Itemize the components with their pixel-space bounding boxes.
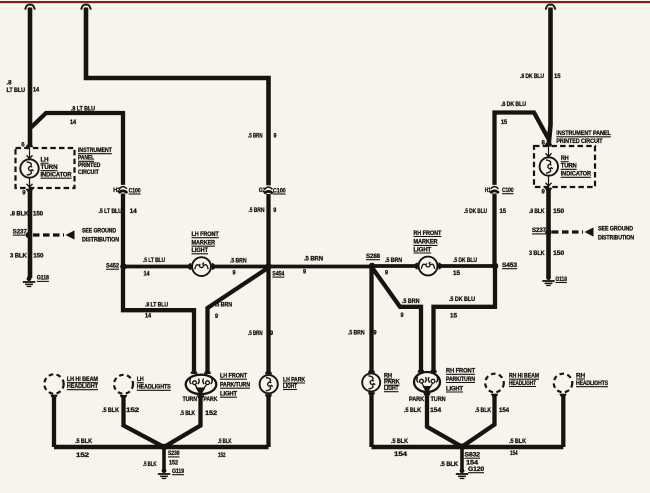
connector G2 C100 [259, 185, 286, 194]
splice S452 [106, 263, 127, 270]
wire .5 BLK LH hi beam to bus [52, 395, 56, 447]
svg-text:G2: G2 [259, 188, 266, 194]
label RH HEADLIGHTS [576, 373, 608, 387]
svg-text:RH FRONT: RH FRONT [446, 369, 475, 375]
connector H2 C100 [113, 185, 141, 194]
label .8 LT BLU 14 (wire A) [7, 81, 40, 95]
label .5 BRN 9 (below G2) [248, 208, 277, 214]
label .5 BLK 152 (headlights drop) [102, 408, 140, 414]
label .5 LT BLU 14 (marker row) [143, 258, 165, 278]
svg-text:S453: S453 [502, 263, 518, 269]
svg-text:.5 BLK: .5 BLK [475, 408, 492, 414]
svg-text:.5 DK BLU: .5 DK BLU [464, 209, 487, 215]
wire .5 BRN marker to S454 [211, 265, 266, 269]
connector bump LH headlights [120, 395, 127, 399]
wire .5 BLK S832 to ground [440, 447, 462, 470]
off-page arrow RH feed [546, 5, 556, 10]
park bulb LH [203, 379, 212, 385]
turn bulb RH [428, 377, 437, 383]
svg-text:9: 9 [401, 313, 405, 319]
svg-text:14: 14 [130, 209, 138, 215]
wire .8 BLK to ground (RH ind) [546, 188, 551, 277]
connector bump out of LH park/turn [197, 395, 204, 399]
park bulb RH [417, 377, 426, 383]
label PARK TURN (RH) [409, 397, 446, 403]
svg-text:152: 152 [205, 411, 218, 417]
svg-text:9: 9 [542, 190, 546, 196]
dashed wire to ground distribution (LH) [33, 230, 75, 239]
RH park light lamp [362, 373, 380, 391]
svg-text:PARK/TURN: PARK/TURN [220, 383, 250, 389]
label .5 DK BLU 15 (to turn bulb) [449, 297, 475, 320]
svg-text:LIGHT: LIGHT [384, 386, 399, 392]
svg-text:.5 BLK: .5 BLK [180, 411, 196, 417]
wire .5 BLK RH hi beam to S832 [462, 394, 495, 447]
svg-text:RH HI BEAM: RH HI BEAM [509, 374, 539, 380]
svg-text:9: 9 [233, 271, 237, 277]
label .5 DK BLU 15 (below H1) [464, 209, 507, 215]
svg-text:CIRCUIT: CIRCUIT [78, 170, 99, 176]
RH hi beam headlight (dashed) [485, 374, 504, 393]
svg-text:.8 BLK: .8 BLK [529, 209, 545, 215]
svg-text:INDICATOR: INDICATOR [41, 173, 73, 179]
instrument panel dashed box RH [534, 146, 595, 187]
svg-text:G118: G118 [555, 277, 567, 283]
connector H1 C100 [485, 185, 514, 194]
connector bumps RH park light [368, 369, 375, 396]
off-page arrow BRN feed [81, 5, 91, 10]
label TURN PARK (LH) [183, 397, 219, 403]
pin 9 connector at RH box bottom [542, 188, 552, 196]
splice S454 [265, 263, 285, 277]
svg-text:LH FRONT: LH FRONT [220, 374, 247, 380]
splice S239 [161, 444, 180, 467]
splice S453 [492, 263, 518, 270]
svg-text:LH HI BEAM: LH HI BEAM [67, 377, 98, 383]
wire .5 BRN S454 diagonal to LH park/turn [208, 268, 269, 375]
wire .5 BLK LH park/turn to S239 [164, 395, 201, 447]
svg-text:HEADLIGHTS: HEADLIGHTS [137, 385, 171, 391]
off-page arrow LH feed [25, 5, 35, 10]
svg-text:DISTRIBUTION: DISTRIBUTION [598, 236, 634, 242]
svg-text:LT BLU: LT BLU [7, 88, 26, 94]
label LH TURN INDICATOR [41, 158, 73, 179]
label INSTRUMENT PANEL PRINTED CIRCUIT (LH) [78, 148, 112, 176]
svg-text:.5 LT BLU: .5 LT BLU [143, 258, 165, 264]
svg-text:.5 DK BLU: .5 DK BLU [449, 297, 475, 303]
label .5 DK BLU 15 (marker-S453) [453, 258, 477, 277]
svg-text:RH: RH [576, 373, 585, 379]
svg-text:H1: H1 [485, 188, 492, 194]
ground G119 [158, 468, 185, 479]
connector bumps RH marker lamp [414, 263, 442, 270]
svg-text:.8 DK BLU: .8 DK BLU [501, 102, 526, 108]
svg-text:LH: LH [137, 377, 144, 383]
label SEE GROUND DISTRIBUTION (RH) [598, 226, 634, 241]
ground G118 (LH) [23, 276, 50, 287]
svg-text:.8 DK BLU: .8 DK BLU [520, 74, 544, 80]
svg-text:PRINTED CIRCUIT: PRINTED CIRCUIT [556, 139, 603, 145]
svg-text:.5 BLK: .5 BLK [440, 462, 459, 468]
label .8 LT BLU 14 (branch) [70, 107, 95, 126]
svg-text:.5 BLK: .5 BLK [404, 408, 422, 414]
svg-text:.5 BLK: .5 BLK [509, 439, 527, 445]
label .5 BLK 154 (RH park/turn drop) [404, 408, 442, 414]
svg-text:.8 LT BLU: .8 LT BLU [145, 302, 168, 308]
LH front marker light lamp [192, 257, 211, 276]
svg-text:.5 BRN: .5 BRN [230, 258, 247, 264]
svg-text:SEE GROUND: SEE GROUND [82, 229, 117, 235]
printed circuit trace in LH box [27, 148, 33, 188]
LH hi beam headlight (dashed) [44, 374, 63, 393]
svg-text:14: 14 [70, 120, 77, 126]
svg-text:LIGHT: LIGHT [220, 392, 237, 398]
filament common join LH park/turn [195, 384, 208, 396]
svg-text:150: 150 [553, 251, 565, 257]
wire .8 BLK to ground (LH ind) [28, 189, 33, 278]
svg-text:.5 BRN: .5 BRN [304, 257, 323, 263]
label INSTRUMENT PANEL PRINTED CIRCUIT (RH) [556, 131, 611, 145]
wire branch .8 DK BLU to H1-C100 [495, 113, 549, 187]
wire .5 BLK RH park light to bus [369, 392, 373, 447]
svg-text:150: 150 [553, 209, 565, 215]
svg-text:LIGHT: LIGHT [283, 384, 297, 390]
svg-text:TURN: TURN [561, 164, 577, 170]
label .8 DK BLU 15 (wire E) [520, 74, 561, 80]
svg-text:150: 150 [33, 212, 44, 218]
svg-text:TURN: TURN [183, 397, 198, 403]
label LH FRONT MARKER LIGHT [192, 232, 220, 254]
svg-text:.8 BLK: .8 BLK [10, 212, 29, 218]
svg-text:PARK: PARK [203, 397, 218, 403]
label .5 BRN 9 (to RH park bulb) [401, 299, 420, 319]
svg-text:9: 9 [374, 331, 378, 337]
svg-text:.8: .8 [7, 81, 13, 87]
svg-text:RH: RH [384, 373, 392, 379]
svg-text:PANEL: PANEL [78, 156, 94, 162]
svg-text:LIGHT: LIGHT [413, 247, 431, 253]
svg-text:HEADLIGHTS: HEADLIGHTS [576, 381, 608, 387]
svg-text:15: 15 [500, 209, 507, 215]
label .8 DK BLU 15 (branch) [501, 102, 526, 126]
svg-text:S288: S288 [366, 254, 381, 260]
wire .5 BRN S288 down to RH park light [369, 266, 373, 374]
svg-text:.5 LT BLU: .5 LT BLU [99, 209, 122, 215]
svg-text:HEADLIGHT: HEADLIGHT [67, 384, 98, 390]
wire .5 BLK RH park/turn to S832 [427, 393, 462, 447]
wire .8 DK BLU feed (RH turn) from top [549, 8, 551, 147]
top border rule [0, 1, 650, 3]
svg-text:9: 9 [274, 134, 278, 140]
svg-text:.5 BLK: .5 BLK [143, 462, 157, 468]
svg-text:S454: S454 [272, 271, 285, 277]
label .5 BRN 9 (S454-S288) [303, 257, 323, 276]
svg-text:3 BLK: 3 BLK [10, 254, 27, 260]
svg-text:SEE GROUND: SEE GROUND [598, 226, 634, 232]
label RH TURN INDICATOR [561, 156, 592, 178]
svg-text:LH FRONT: LH FRONT [192, 232, 220, 238]
splice S832 [459, 443, 481, 466]
label .5 BLK 152 (bus right) [218, 439, 232, 459]
connector bumps LH park light [265, 371, 272, 398]
svg-text:.5 BLK: .5 BLK [102, 408, 120, 414]
svg-text:15: 15 [554, 74, 561, 80]
filament common join RH park/turn [422, 383, 434, 395]
svg-text:9: 9 [22, 191, 26, 197]
svg-text:154: 154 [466, 461, 479, 467]
svg-text:9: 9 [270, 331, 274, 337]
svg-text:PRINTED: PRINTED [78, 163, 101, 169]
wire .5 BLK RH headlights to bus [561, 394, 565, 447]
label .5 BRN 9 (marker-S454) [230, 258, 247, 276]
dashed wire to ground distribution (RH) [552, 227, 594, 236]
splice S288 [366, 254, 381, 269]
svg-text:14: 14 [145, 314, 152, 320]
svg-text:154: 154 [430, 408, 442, 414]
svg-text:LH PARK: LH PARK [283, 377, 306, 383]
RH ground bus wire [372, 445, 564, 450]
pin 8 connector at RH box top [542, 141, 552, 147]
connector bumps into RH park/turn [418, 369, 438, 373]
svg-text:DISTRIBUTION: DISTRIBUTION [82, 238, 119, 244]
svg-text:G118: G118 [37, 276, 50, 282]
wire .5 BRN S288 to RH marker lamp [372, 264, 418, 268]
wire .5 LT BLU H2 to S452 [123, 194, 194, 375]
LH turn indicator lamp [20, 159, 38, 177]
svg-text:9: 9 [303, 269, 307, 275]
svg-text:LIGHT: LIGHT [446, 386, 463, 392]
label .5 BLK 154 (bus left) [391, 439, 409, 458]
label RH PARK LIGHT [384, 373, 400, 392]
pin 9 connector at box bottom [22, 189, 33, 197]
wire .5 BRN G2 to S454 [266, 194, 270, 265]
svg-text:MARKER: MARKER [413, 240, 438, 246]
connector bump RH headlights [560, 394, 567, 398]
svg-text:9: 9 [385, 271, 389, 277]
svg-text:150: 150 [33, 254, 44, 260]
label LH PARK LIGHT [283, 377, 306, 390]
LH park light lamp [260, 375, 278, 393]
svg-text:.5 BRN: .5 BRN [348, 331, 365, 337]
svg-text:PARK: PARK [384, 380, 400, 386]
wire .5 BLK LH park light to bus [266, 394, 270, 447]
svg-text:S239: S239 [168, 451, 180, 457]
wire .5 DK BLU marker to S453 [438, 264, 495, 268]
label .5 BLK 154 (hi beam drop) [475, 408, 510, 414]
label .5 BRN 9 (to RH park light) [348, 331, 377, 337]
svg-text:H2: H2 [113, 188, 121, 194]
svg-text:G120: G120 [468, 467, 485, 473]
svg-text:15: 15 [453, 271, 461, 277]
svg-text:LH: LH [41, 158, 49, 164]
svg-text:.5 BRN: .5 BRN [248, 134, 263, 140]
label .5 LT BLU 14 (below H2) [99, 209, 138, 215]
RH turn indicator lamp [540, 157, 558, 175]
ground G118 (RH) [542, 275, 567, 286]
svg-text:9: 9 [273, 208, 277, 214]
svg-text:S237: S237 [532, 228, 547, 234]
wire .5 BRN S288 diagonal to RH park bulb [372, 268, 421, 375]
wire .5 BLK LH headlights to S239 [124, 395, 165, 447]
svg-text:.5 BRN: .5 BRN [248, 208, 264, 214]
printed circuit trace in RH box [546, 146, 552, 187]
LH ground bus wire [54, 445, 269, 450]
splice S237 (RH) [532, 228, 552, 235]
svg-text:.5 BRN: .5 BRN [215, 302, 232, 308]
wire branch .8 LT BLU to H2-C100 [31, 113, 123, 187]
svg-text:HEADLIGHT: HEADLIGHT [509, 381, 536, 387]
wire .5 BRN S454 to S288 [269, 265, 373, 269]
svg-text:PARK: PARK [409, 397, 425, 403]
wire .5 LT BLU S452 to marker lamp [125, 265, 192, 269]
svg-text:G119: G119 [172, 469, 185, 475]
svg-text:PARK/TURN: PARK/TURN [446, 377, 475, 383]
svg-text:C100: C100 [502, 188, 514, 194]
instrument panel dashed box LH [16, 148, 75, 188]
splice S237 (LH) [13, 229, 33, 238]
svg-text:.5 BRN: .5 BRN [402, 299, 420, 305]
svg-text:TURN: TURN [41, 165, 58, 171]
svg-text:TURN: TURN [431, 397, 446, 403]
svg-text:154: 154 [510, 451, 518, 457]
wire .5 BLK S239 to ground [143, 447, 164, 470]
label 3 BLK 150 (RH) [529, 251, 565, 257]
label .5 BLK 152 (bus left) [75, 439, 93, 459]
label .5 BRN 9 (S288-marker) [385, 258, 402, 277]
connector bumps into LH park/turn [191, 370, 212, 373]
svg-text:3 BLK: 3 BLK [529, 251, 545, 257]
svg-text:.5 BLK: .5 BLK [218, 439, 232, 445]
wire .5 DK BLU S453 to RH turn bulb [434, 266, 496, 374]
ground G120 [456, 467, 485, 479]
svg-text:9: 9 [215, 314, 219, 320]
label LH HEADLIGHTS [137, 377, 171, 391]
svg-text:LIGHT: LIGHT [192, 248, 209, 254]
label .5 BRN 9 (to LH park light) [248, 331, 274, 337]
wire .5 DK BLU H1 to S453 [492, 194, 496, 267]
svg-text:14: 14 [33, 88, 40, 94]
svg-text:S452: S452 [106, 264, 120, 270]
svg-text:154: 154 [394, 452, 408, 458]
svg-text:152: 152 [218, 453, 226, 459]
svg-text:INSTRUMENT PANEL: INSTRUMENT PANEL [556, 131, 611, 137]
turn bulb LH [190, 379, 199, 385]
svg-text:INSTRUMENT: INSTRUMENT [78, 148, 112, 154]
svg-text:S832: S832 [465, 453, 481, 459]
label RH HI BEAM HEADLIGHT [509, 374, 539, 387]
wire .5 BRN S454 down to LH park light [266, 268, 270, 374]
svg-text:RH: RH [561, 156, 569, 162]
svg-text:152: 152 [126, 408, 140, 414]
svg-text:.5 BLK: .5 BLK [75, 439, 93, 445]
svg-text:.5 DK BLU: .5 DK BLU [453, 258, 477, 264]
svg-text:15: 15 [501, 120, 508, 126]
label LH HI BEAM HEADLIGHT [67, 377, 98, 390]
connector bump out of RH park/turn [424, 393, 431, 397]
wire .5 BRN feed from top [86, 8, 269, 187]
svg-text:15: 15 [450, 314, 458, 320]
label .8 LT BLU 14 (to front turn) [145, 302, 168, 319]
svg-text:S237: S237 [13, 229, 28, 235]
RH front marker light lamp [419, 257, 438, 276]
svg-text:.5 BLK: .5 BLK [391, 439, 409, 445]
label .5 BLK 154 (bus right) [509, 439, 527, 457]
label .8 BLK 150 (RH) [529, 209, 565, 215]
label .5 BRN 9 (to park bulb) [215, 302, 232, 320]
label LH FRONT PARK/TURN LIGHT [220, 374, 250, 398]
svg-text:152: 152 [169, 461, 179, 467]
svg-text:.8 LT BLU: .8 LT BLU [71, 107, 95, 113]
svg-text:MARKER: MARKER [192, 241, 216, 247]
label RH FRONT MARKER LIGHT [413, 231, 441, 254]
RH headlights (dashed) [554, 374, 573, 393]
svg-text:INDICATOR: INDICATOR [561, 172, 592, 178]
LH front park/turn light housing [186, 375, 217, 394]
connector bumps LH marker lamp [188, 263, 216, 270]
svg-text:C100: C100 [129, 188, 142, 194]
svg-text:.5 BRN: .5 BRN [385, 258, 402, 264]
label .5 BRN 9 (above C100) [248, 134, 277, 140]
label .5 BLK 152 (park/turn drop) [180, 411, 218, 417]
svg-text:C100: C100 [273, 188, 286, 194]
connector bump RH hi beam [491, 394, 498, 398]
connector bump LH hi beam [51, 395, 58, 399]
svg-text:152: 152 [76, 453, 90, 459]
svg-text:.5 BRN: .5 BRN [248, 331, 263, 337]
label SEE GROUND DISTRIBUTION (LH) [82, 229, 119, 244]
label RH FRONT PARK/TURN LIGHT [446, 369, 475, 393]
wire .8 LT BLU feed (LH turn) from top [28, 8, 33, 146]
svg-text:RH FRONT: RH FRONT [413, 231, 441, 237]
pin 6 connector at box top [21, 143, 33, 149]
svg-text:154: 154 [499, 408, 510, 414]
label 3 BLK 150 [10, 254, 44, 260]
svg-text:14: 14 [144, 272, 151, 278]
LH headlights (dashed) [114, 375, 133, 394]
RH front park/turn light housing [414, 372, 440, 392]
label .8 BLK 150 [10, 212, 44, 218]
